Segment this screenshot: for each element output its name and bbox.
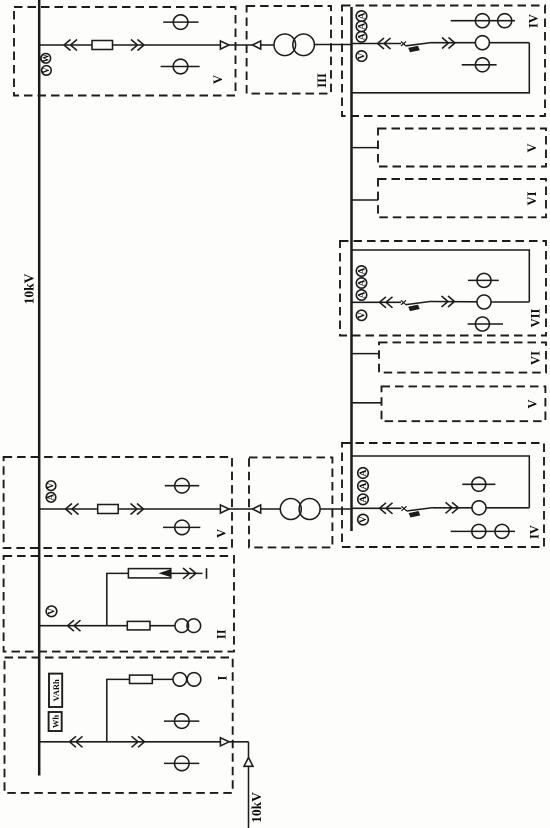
PT branch wire (above) [462, 483, 495, 485]
connector triangle (right-pointing, cubicle V bottom exit) [220, 505, 229, 513]
lamp circle 1 [472, 524, 486, 538]
wire LV feeder (cubicle IV top) [352, 43, 402, 45]
current transformer circle (lower) [164, 762, 199, 764]
PT circle 1 [475, 14, 489, 28]
incoming flow arrow (open, pointing up) [244, 758, 253, 767]
wire CT to loop [491, 301, 529, 303]
svg-text:A: A [357, 23, 367, 30]
transformer T1 (two overlapping circles) [274, 34, 296, 56]
stub wire to cubicle V right upper [352, 147, 379, 149]
wire transformer T2 to LV bus [320, 508, 351, 510]
drawout contact chevrons [380, 503, 393, 514]
svg-text:A: A [357, 13, 367, 20]
10kV busbar W1 [38, 0, 41, 776]
svg-text:V: V [526, 399, 540, 408]
svg-text:III: III [315, 73, 329, 88]
LV busbar W2 [350, 7, 353, 531]
PT circle [477, 273, 491, 287]
svg-text:V: V [525, 143, 539, 152]
loop wire (right edge down and back to bus) [352, 43, 530, 93]
cubicle IV (bottom LV incoming panel) dashed outline [342, 443, 544, 547]
drawout contact chevrons [442, 38, 455, 49]
fuse FU (PT branch) [130, 675, 153, 683]
disconnector x mark [401, 300, 406, 305]
terminal bar [206, 568, 208, 579]
stub wire to cubicle VI right upper [352, 199, 379, 201]
PT branch wire (above) [468, 279, 499, 281]
svg-text:A: A [46, 494, 56, 501]
cubicle VII dashed outline [340, 241, 546, 336]
svg-text:IV: IV [527, 14, 541, 28]
svg-text:II: II [214, 629, 228, 639]
cubicle IV bottom: voltmeter V [358, 514, 369, 525]
meter A (cubicle V bottom) [46, 493, 56, 503]
fuse FU (cubicle II main) [127, 621, 150, 630]
lamp circle [475, 58, 489, 72]
svg-text:A: A [359, 469, 369, 476]
wire LV feeder (cubicle VII) [352, 301, 402, 303]
meter label box varh [49, 674, 62, 707]
drawout contact chevrons [378, 38, 391, 49]
svg-text:10kV: 10kV [249, 792, 264, 823]
wire fuse to PT [152, 678, 173, 680]
cubicle V (bottom feeder panel) dashed outline [4, 457, 232, 548]
svg-text:A: A [357, 291, 367, 298]
wire feeder bottom (bus to triangle) [39, 508, 220, 510]
PT circle 2 [498, 14, 512, 28]
wire to CT [431, 301, 477, 303]
current transformer circle (upper) [165, 485, 199, 487]
wire transformer to LV bus [314, 44, 351, 46]
cubicle II dashed outline [4, 556, 234, 652]
svg-text:Wh: Wh [50, 715, 60, 729]
drawout contact chevrons [183, 568, 196, 579]
svg-text:IV: IV [528, 525, 542, 539]
svg-text:VI: VI [529, 351, 543, 365]
svg-text:V: V [41, 67, 51, 74]
branch wire up (arrester branch) [107, 573, 129, 625]
svg-text:V: V [359, 516, 369, 523]
incoming 10kV line (vertical) [248, 742, 250, 828]
arrester FU body (rect with arrow) [128, 569, 170, 578]
oil circuit breaker body (filled) [409, 511, 421, 518]
svg-text:A: A [359, 496, 369, 503]
svg-text:V: V [214, 529, 228, 538]
wire gap between panels [229, 508, 252, 510]
cubicle III (top transformer panel) dashed outline [247, 6, 331, 94]
svg-text:VII: VII [529, 308, 543, 327]
current transformer circle on line [477, 295, 491, 309]
wire to transformer T1 [261, 44, 274, 46]
svg-text:A: A [357, 279, 367, 286]
wire CT to loop [489, 42, 529, 44]
current transformer circle on line [475, 36, 489, 50]
oil circuit breaker blade (open) [406, 43, 431, 46]
svg-text:V: V [357, 53, 367, 60]
wire CT to loop [486, 507, 529, 509]
wire to CT [431, 42, 475, 44]
drawout contact chevrons (toward load) [131, 504, 144, 515]
oil circuit breaker blade (open) [407, 508, 434, 511]
cubicle IV bottom: ammeters A x3 [358, 468, 369, 479]
meter V (cubicle II) [46, 606, 57, 617]
cubicle IV (top LV incoming panel) dashed outline [342, 6, 545, 117]
oil circuit breaker body (filled) [408, 46, 420, 53]
cubicle VI (right, lower) dashed outline [379, 342, 546, 372]
arrester arrow (filled triangle) [159, 569, 171, 577]
loop wire (up and back to bus) [352, 250, 530, 302]
cubicle IV top: voltmeter V [356, 51, 367, 62]
transformer T2 (two overlapping circles) [280, 499, 301, 520]
loop wire (up and back to bus) [352, 456, 530, 508]
lamp circle 2 [495, 524, 509, 538]
cubicle III (bottom transformer panel) dashed outline [249, 457, 332, 547]
PT branch wire (top) [451, 20, 515, 22]
disconnector x mark [402, 506, 407, 511]
drawout contact chevrons (toward load) [131, 40, 144, 51]
svg-text:I: I [216, 675, 230, 680]
connector triangle (right-pointing, cubicle I exit) [220, 738, 229, 746]
svg-text:VI: VI [525, 191, 539, 205]
branch wire up (PT branch) [107, 679, 130, 741]
svg-text:V: V [211, 75, 225, 84]
current transformer circle (upper) [164, 720, 199, 722]
svg-text:V: V [46, 482, 56, 489]
cubicle VII: ammeters A x3 [356, 266, 366, 276]
cubicle I dashed outline [5, 658, 233, 793]
current transformer circle (lower) [163, 526, 200, 528]
wire LV feeder (cubicle IV bottom) [352, 507, 402, 509]
current transformer circle on line [472, 501, 486, 515]
lamp branch wire (bottom) [462, 64, 497, 66]
meter V (cubicle V top) [42, 66, 52, 76]
wire feeder cubicle II [39, 625, 175, 627]
cubicle V (right, lower) dashed outline [382, 386, 546, 421]
drawout contact chevrons (toward load) [132, 736, 145, 747]
current transformer circle (bottom) [161, 66, 200, 68]
drawout contact chevrons [442, 296, 455, 307]
svg-text:W: W [41, 54, 51, 63]
meter Wh (cubicle V top) [41, 54, 51, 64]
connector triangle (left-pointing, cubicle III bottom entry) [253, 505, 261, 513]
lamp branch wire (below) [451, 530, 515, 532]
PT circle [472, 477, 486, 491]
station transformer T3 (two overlapping circles) [175, 619, 189, 633]
current transformer circle (top) [163, 21, 198, 23]
oil circuit breaker blade (open) [406, 301, 431, 304]
wire feeder top (bus to triangle) [39, 44, 220, 46]
wire to incoming corner [229, 741, 248, 743]
cubicle IV top: ammeters A x3 [356, 11, 367, 22]
cubicle V (right, upper) dashed outline [378, 129, 546, 167]
fuse FU (top feeder) [92, 41, 113, 50]
svg-text:A: A [357, 267, 367, 274]
svg-text:A: A [359, 482, 369, 489]
oil circuit breaker body (filled) [408, 305, 420, 312]
cubicle VII: voltmeter V [356, 310, 366, 320]
svg-text:V: V [357, 312, 367, 319]
drawout contact chevrons (toward bus) [68, 620, 81, 631]
meter label box Wh [49, 712, 62, 731]
drawout contact chevrons [380, 297, 393, 308]
svg-text:VARh: VARh [51, 679, 61, 701]
fuse FU (bottom feeder) [98, 505, 119, 514]
svg-text:10kV: 10kV [22, 273, 37, 304]
connector triangle (right-pointing, cubicle V exit) [220, 41, 229, 49]
wire to transformer T2 [261, 508, 281, 510]
connector triangle (left-pointing, cubicle III entry) [253, 41, 261, 49]
voltage transformer T4 (two overlapping circles) [173, 673, 187, 687]
drawout contact chevrons (toward bus) [64, 40, 77, 51]
stub wire to cubicle V right lower [352, 402, 382, 404]
drawout contact chevrons [446, 502, 459, 513]
wire after arrester [171, 572, 203, 574]
svg-text:V: V [47, 608, 57, 615]
stub wire to cubicle VI right lower [352, 353, 380, 355]
lamp branch wire (below) [468, 323, 503, 325]
wire gap between panels [229, 44, 252, 46]
disconnector x mark [401, 42, 406, 47]
meter V (cubicle V bottom) [46, 481, 56, 491]
svg-text:A: A [357, 33, 367, 40]
drawout contact chevrons (toward bus) [66, 504, 79, 515]
lamp circle [475, 317, 489, 331]
drawout contact chevrons (toward bus) [70, 736, 83, 747]
cubicle V (top feeder panel) dashed outline [14, 7, 236, 96]
wire feeder cubicle I [39, 741, 220, 743]
cubicle VI (right, upper) dashed outline [378, 179, 546, 217]
wire to CT [433, 507, 472, 509]
